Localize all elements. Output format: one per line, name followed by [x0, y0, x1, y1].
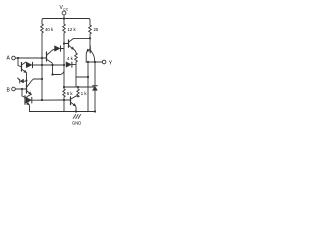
svg-text:B: B — [7, 87, 11, 93]
svg-text:25: 25 — [94, 27, 99, 32]
svg-text:Y: Y — [109, 61, 113, 67]
svg-text:CC: CC — [63, 7, 68, 11]
svg-text:A: A — [7, 55, 11, 61]
svg-text:GND: GND — [72, 121, 81, 126]
svg-text:6 k: 6 k — [67, 91, 74, 96]
svg-text:40 k: 40 k — [45, 27, 54, 32]
svg-text:4 k: 4 k — [67, 56, 74, 61]
svg-text:1 k: 1 k — [81, 91, 88, 96]
svg-text:12 k: 12 k — [68, 27, 77, 32]
